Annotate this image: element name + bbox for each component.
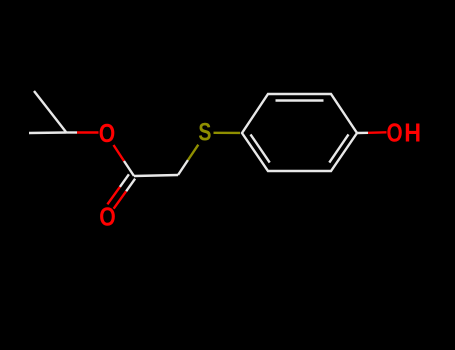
svg-text:S: S: [198, 118, 211, 146]
svg-text:O: O: [387, 118, 403, 147]
svg-text:O: O: [99, 120, 115, 148]
svg-text:H: H: [404, 119, 421, 147]
svg-text:O: O: [99, 204, 115, 232]
